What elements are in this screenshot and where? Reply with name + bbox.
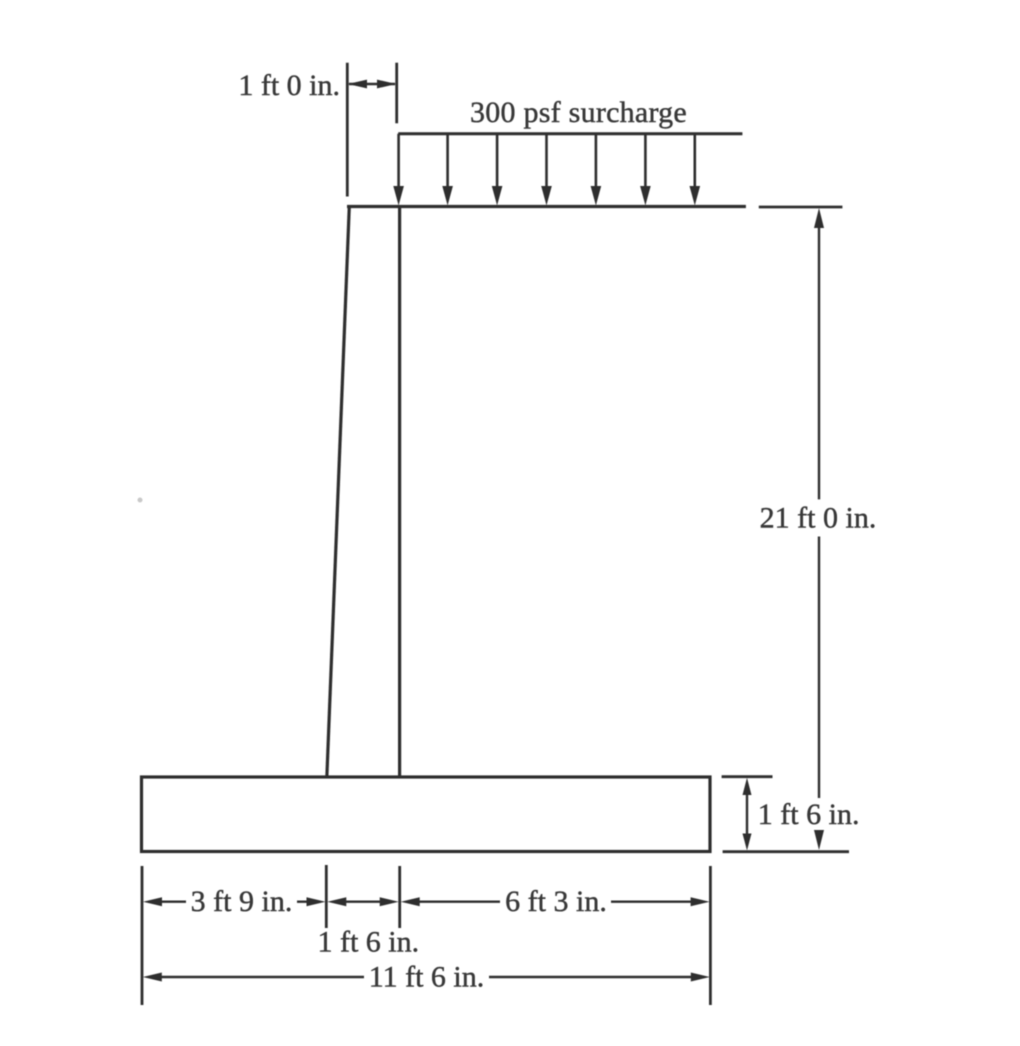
3ft9in right arrowhead: [307, 897, 326, 906]
1ft6in base left arrowhead: [327, 897, 346, 906]
11 ft 6 in. dimension line left part: [157, 976, 364, 978]
extension line left of top stem dimension: [346, 63, 349, 197]
21 ft dimension line upper segment: [818, 226, 820, 499]
svg-text:300 psf surcharge: 300 psf surcharge: [470, 96, 687, 129]
11ft6in left arrowhead: [143, 973, 162, 982]
surcharge arrowhead 6: [640, 186, 651, 206]
6 ft 3 in. dimension line left part: [415, 901, 500, 903]
21 ft dimension line arrow segment bottom: [818, 830, 820, 838]
surcharge arrowhead 1: [393, 186, 404, 206]
footing bottom right extension line: [723, 850, 849, 853]
6 ft 3 in. dimension line right part: [611, 901, 695, 903]
surcharge arrow 5: [595, 134, 598, 188]
21 ft bottom arrowhead: [814, 830, 824, 850]
surcharge arrow 4: [545, 134, 548, 188]
21 ft top arrowhead: [814, 208, 824, 228]
svg-text:6 ft 3 in.: 6 ft 3 in.: [505, 885, 607, 918]
1 ft 6 in. base dimension line: [341, 901, 385, 903]
stray scan mark: [138, 498, 143, 503]
bottom extension line far right: [709, 866, 712, 1005]
surcharge arrow 2: [446, 134, 449, 188]
arrowhead 1ft0in right: [377, 80, 396, 89]
1ft6in right bottom arrowhead: [743, 834, 752, 851]
11ft6in right arrowhead: [691, 973, 710, 982]
svg-text:1 ft 0 in.: 1 ft 0 in.: [238, 69, 340, 102]
svg-text:1 ft 6 in.: 1 ft 6 in.: [758, 798, 860, 831]
surcharge arrowhead 3: [492, 186, 503, 206]
6ft3in left arrowhead: [401, 897, 420, 906]
3 ft 9 in. dimension line left part: [158, 901, 186, 903]
dimension line 1 ft 0 in.: [349, 83, 395, 85]
wall stem right vertical face: [398, 207, 401, 779]
right extension line at wall top: [759, 206, 843, 209]
3ft9in left arrowhead: [143, 897, 162, 906]
21 ft dimension line middle segment: [818, 537, 820, 799]
svg-text:11 ft 6 in.: 11 ft 6 in.: [369, 960, 485, 993]
surcharge arrowhead 5: [591, 186, 602, 206]
surcharge arrowhead 7: [690, 186, 701, 206]
3 ft 9 in. dimension line right part: [297, 901, 311, 903]
bottom extension line far left: [141, 866, 144, 1005]
surcharge load line: [398, 132, 742, 135]
footing top right extension line: [722, 775, 773, 778]
svg-text:3 ft 9 in.: 3 ft 9 in.: [191, 885, 293, 918]
arrowhead 1ft0in left: [348, 80, 367, 89]
svg-text:21 ft 0 in.: 21 ft 0 in.: [760, 502, 877, 535]
surcharge arrowhead 2: [442, 186, 453, 206]
1 ft 6 in. right dimension line: [746, 794, 748, 835]
6ft3in right arrowhead: [691, 897, 710, 906]
1ft6in right top arrowhead: [743, 778, 752, 795]
extension line right of top stem dimension: [395, 63, 398, 124]
surcharge arrow 6: [644, 134, 647, 188]
surcharge arrow 3: [496, 134, 499, 188]
bottom extension line middle right: [398, 866, 401, 928]
surcharge arrowhead 4: [541, 186, 552, 206]
bottom extension line middle left: [325, 865, 328, 928]
svg-text:1 ft 6 in.: 1 ft 6 in.: [317, 926, 419, 959]
surcharge arrow 1: [397, 134, 400, 188]
footing rectangle: [142, 777, 711, 852]
wall top line: [347, 205, 746, 208]
surcharge arrow 7: [693, 134, 696, 188]
wall stem left battered face: [327, 206, 350, 778]
11 ft 6 in. dimension line right part: [489, 976, 696, 978]
1ft6in base right arrowhead: [380, 897, 399, 906]
